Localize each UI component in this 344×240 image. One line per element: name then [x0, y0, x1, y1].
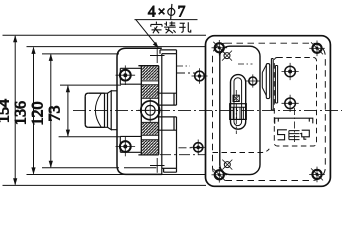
armature fork lower	[157, 117, 176, 130]
bracket assembly	[262, 59, 277, 111]
mounting hole cross top (front view)	[150, 49, 165, 64]
dimension 73 extension line bottom	[59, 136, 121, 138]
core column edges	[138, 66, 158, 155]
dimension 73 line	[67, 86, 69, 136]
leader line to mounting hole	[136, 20, 158, 47]
core hatch block 2	[142, 85, 158, 97]
dimension 136 line	[33, 48, 35, 174]
main horizontal center line	[73, 109, 342, 111]
dimension 136 extension line bottom	[27, 174, 206, 176]
slot vertical center line	[235, 90, 237, 134]
screw top-left front	[116, 65, 136, 85]
svg-text:154: 154	[0, 99, 13, 123]
slot stadium inner	[234, 78, 242, 126]
label underline	[135, 19, 198, 21]
middle screw lower	[282, 95, 299, 112]
hidden outline dashed big	[213, 43, 326, 180]
ribbed block	[230, 104, 247, 120]
short center line segs	[177, 65, 190, 67]
dimension 154 extension line top	[3, 34, 207, 36]
terminal block right	[300, 130, 309, 139]
plunger neck and flange	[105, 93, 108, 127]
terminal clip left	[278, 130, 287, 140]
screw row center line top	[177, 72, 196, 74]
char zhuang	[164, 21, 176, 33]
body bottom step	[162, 168, 177, 174]
mounting hole bottom-left	[212, 167, 228, 183]
core hatch block 3	[141, 121, 158, 123]
plate column left edge	[161, 54, 163, 169]
screw row center line bottom	[179, 147, 205, 149]
mounting hole bottom-right	[309, 167, 325, 183]
hex chamfer arc	[95, 93, 101, 127]
center pin boss	[138, 98, 163, 123]
slot side screw	[246, 74, 260, 87]
svg-text:4: 4	[148, 4, 156, 21]
plate column right edge lower	[176, 117, 178, 168]
screw pocket top	[120, 68, 141, 84]
dimension 73 extension line top	[60, 84, 121, 86]
label anzhuangkong (hand drawn CJK strokes)	[151, 21, 191, 33]
side screw top	[192, 68, 208, 84]
body outline left	[117, 48, 162, 174]
body silhouette rounded rect	[220, 46, 260, 174]
hidden terminal box dashed	[274, 58, 316, 147]
plate column bottom edge line	[162, 167, 177, 169]
char an	[151, 22, 162, 34]
middle screw upper	[282, 63, 299, 80]
coil lines bottom	[141, 135, 158, 139]
square nut with cross	[233, 95, 239, 101]
hidden line lower left	[213, 149, 270, 153]
coil lines top	[141, 81, 158, 85]
terminal center line vertical	[294, 108, 296, 144]
armature fork upper	[157, 93, 176, 105]
body top step	[160, 50, 177, 54]
mounting hole top-right	[309, 41, 325, 57]
mounting plate outline	[206, 36, 331, 187]
svg-text:120: 120	[29, 102, 46, 126]
plate column top edge line	[162, 53, 177, 55]
dimension 120 line	[50, 55, 52, 168]
plate column right edge upper	[176, 54, 178, 105]
dimension 154 line	[14, 36, 16, 185]
mounting hole top-left	[212, 40, 228, 56]
core hatch block top	[142, 66, 158, 80]
terminal stack middle	[289, 131, 300, 140]
svg-text:136: 136	[12, 101, 29, 125]
dimension 120 extension line bottom	[42, 167, 119, 169]
side screw bottom	[191, 140, 206, 156]
hex plunger head	[85, 93, 104, 127]
svg-text:7: 7	[178, 4, 186, 21]
char kong	[179, 22, 191, 32]
rivet bottom-left	[222, 160, 232, 170]
rivet top-left	[222, 51, 232, 61]
mounting hole cross bottom (front view)	[150, 158, 165, 173]
terminal cover staple	[275, 118, 313, 124]
core hatch block 4	[142, 140, 158, 154]
dimension 154 extension line bottom	[3, 184, 207, 186]
dimension 136 extension line top	[27, 46, 206, 48]
svg-text:×: ×	[158, 4, 166, 19]
dimension 120 extension line top	[42, 53, 119, 55]
screw pocket bottom	[120, 136, 141, 152]
screw bottom-left front	[116, 137, 136, 157]
armature bottom edge	[124, 167, 156, 169]
slot stadium outer	[231, 75, 246, 130]
svg-text:73: 73	[46, 106, 63, 122]
